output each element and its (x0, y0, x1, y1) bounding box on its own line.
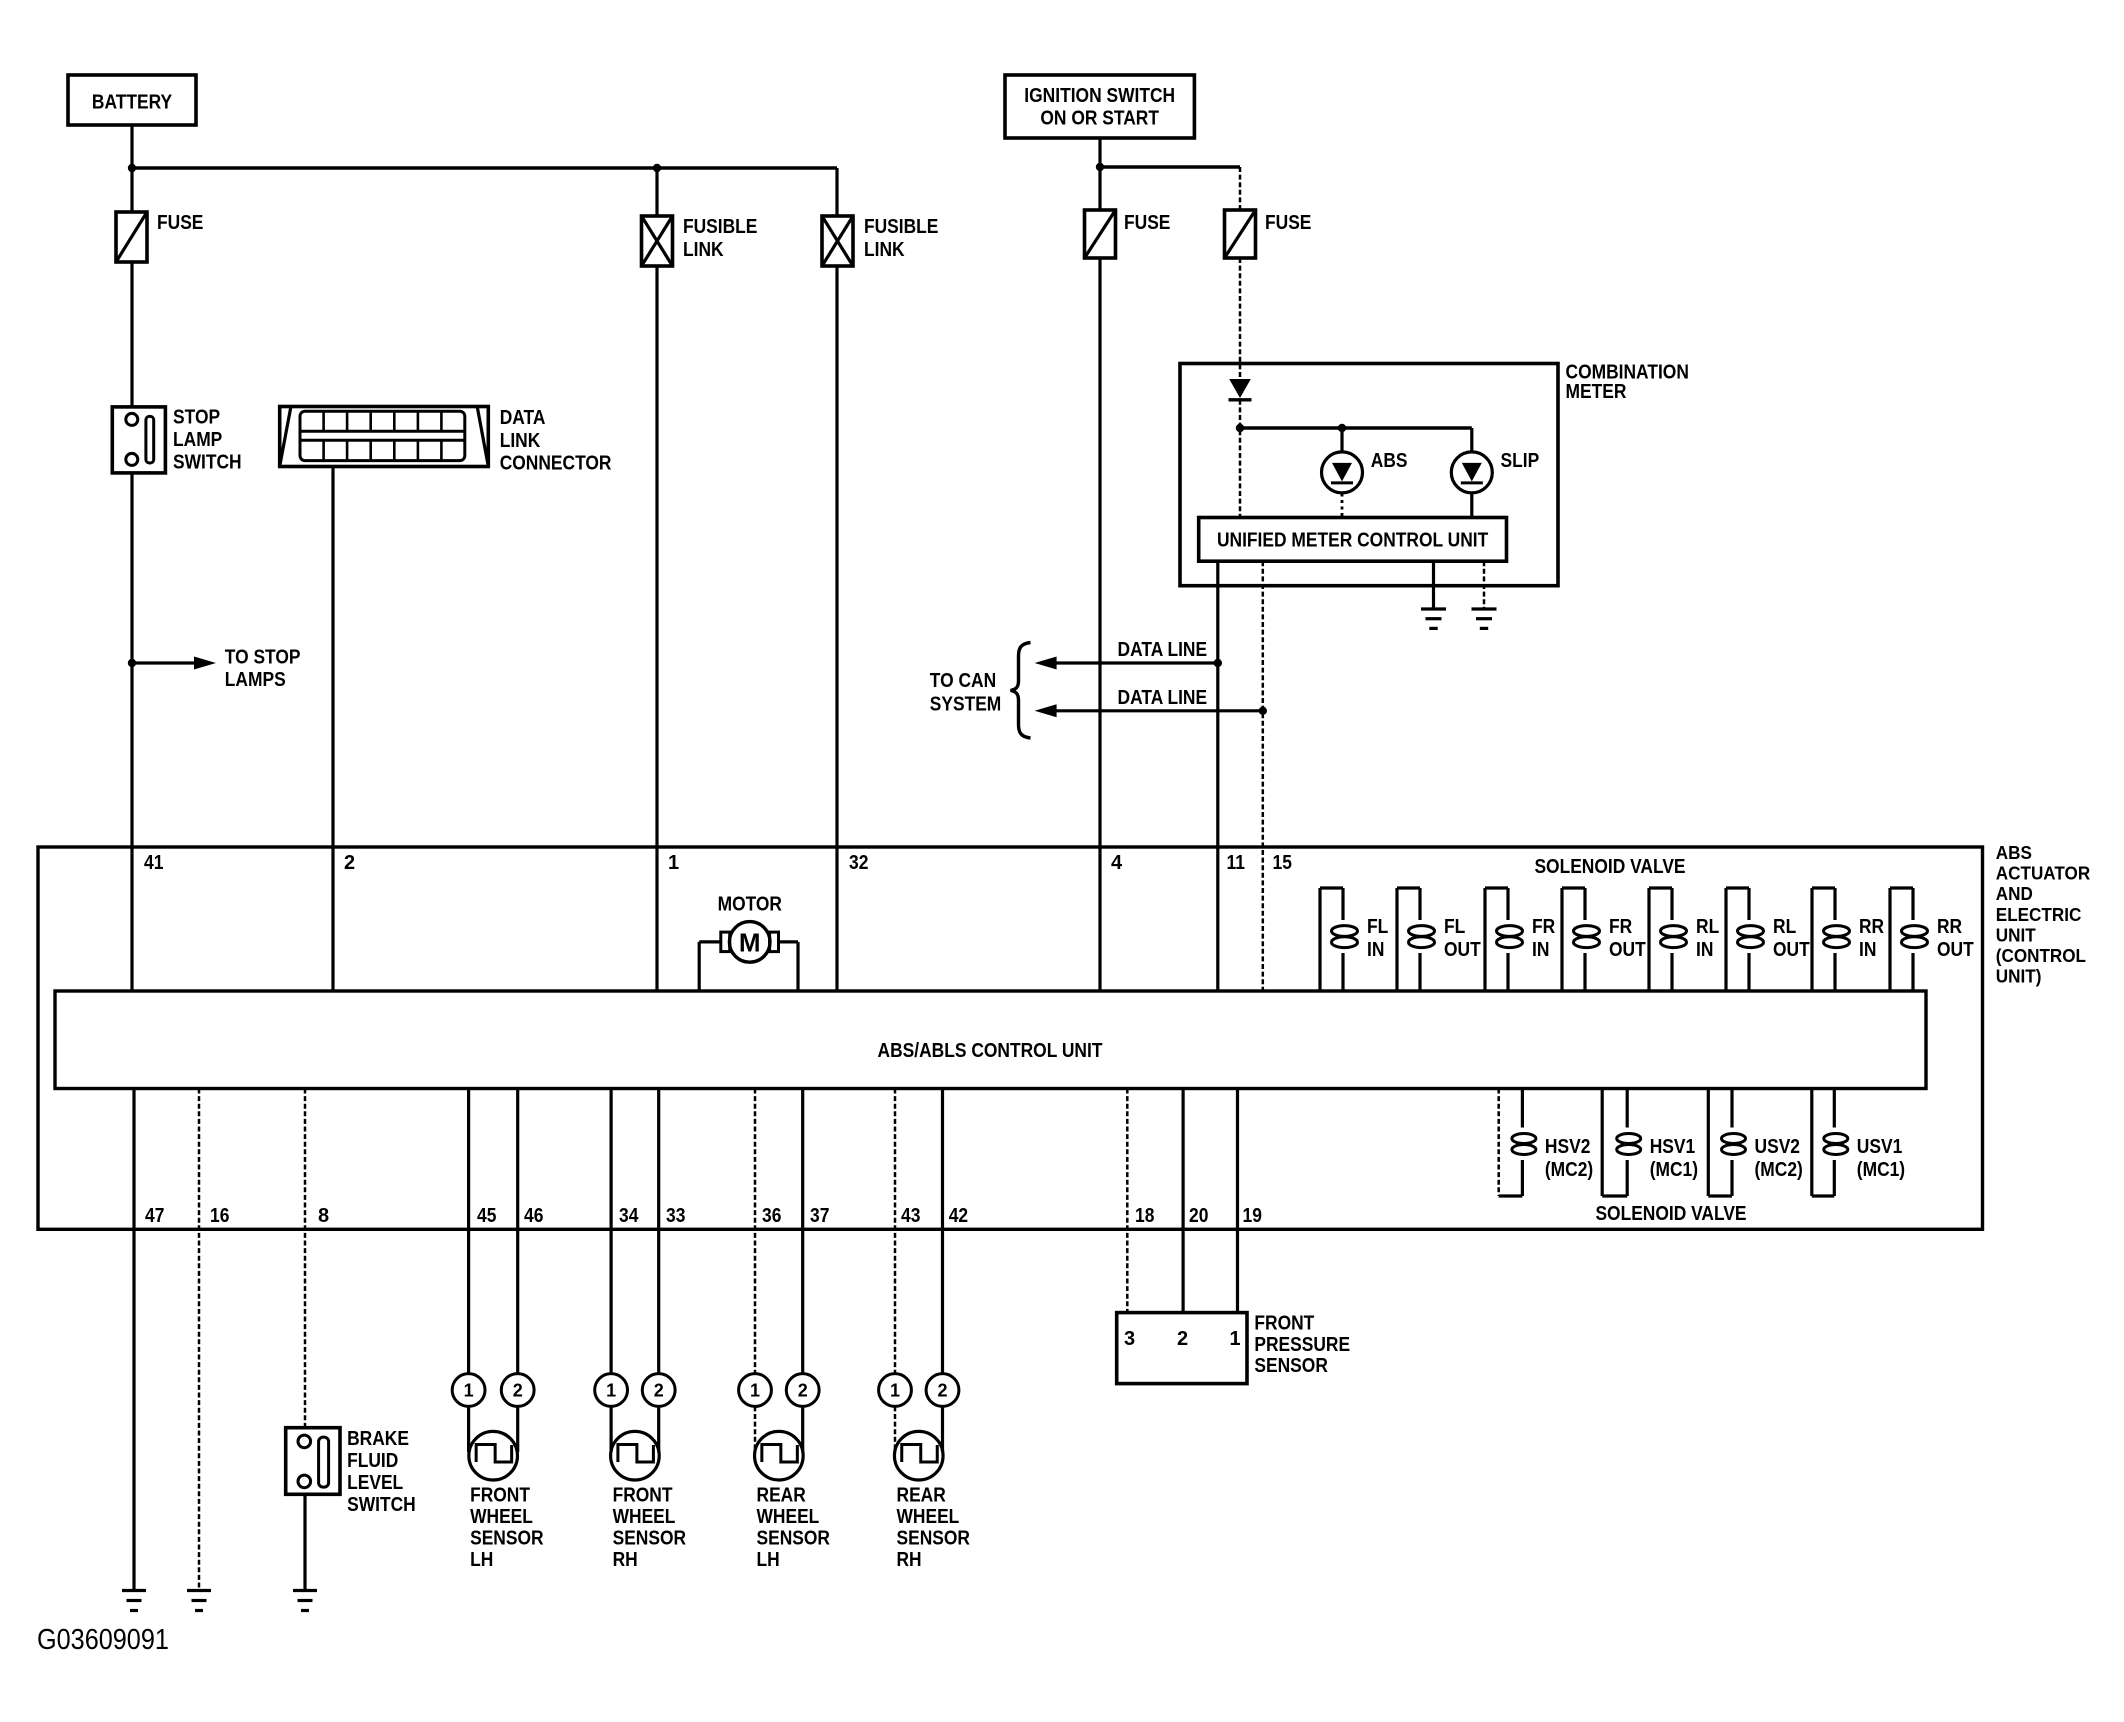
svg-text:OUT: OUT (1773, 939, 1810, 961)
svg-text:1: 1 (1229, 1328, 1240, 1350)
svg-text:RH: RH (613, 1549, 638, 1571)
svg-text:2: 2 (654, 1381, 664, 1401)
svg-text:USV1: USV1 (1857, 1136, 1903, 1158)
svg-text:SWITCH: SWITCH (173, 451, 242, 473)
svg-text:1: 1 (890, 1381, 900, 1401)
svg-text:SLIP: SLIP (1501, 450, 1540, 472)
svg-text:1: 1 (668, 852, 679, 874)
svg-text:FUSE: FUSE (1265, 212, 1311, 234)
svg-text:36: 36 (762, 1205, 781, 1227)
svg-text:SENSOR: SENSOR (897, 1528, 971, 1550)
svg-text:2: 2 (798, 1381, 808, 1401)
svg-text:METER: METER (1566, 381, 1627, 403)
svg-text:SENSOR: SENSOR (757, 1528, 831, 1550)
svg-text:SENSOR: SENSOR (470, 1528, 544, 1550)
svg-text:2: 2 (937, 1381, 947, 1401)
svg-text:LINK: LINK (500, 430, 541, 452)
svg-text:DATA: DATA (500, 407, 546, 429)
svg-text:STOP: STOP (173, 407, 220, 429)
svg-text:CONNECTOR: CONNECTOR (500, 453, 612, 475)
svg-text:FRONT: FRONT (470, 1485, 530, 1507)
svg-text:RL: RL (1696, 916, 1719, 938)
svg-text:LINK: LINK (683, 239, 724, 261)
svg-text:IN: IN (1696, 939, 1713, 961)
svg-text:4: 4 (1111, 852, 1123, 874)
svg-text:2: 2 (1177, 1328, 1188, 1350)
svg-text:47: 47 (145, 1205, 164, 1227)
svg-text:FL: FL (1444, 916, 1465, 938)
svg-text:33: 33 (666, 1205, 685, 1227)
svg-text:(MC1): (MC1) (1650, 1159, 1698, 1181)
svg-text:WHEEL: WHEEL (897, 1506, 960, 1528)
svg-text:TO CAN: TO CAN (930, 670, 996, 692)
svg-text:42: 42 (949, 1205, 968, 1227)
svg-text:SWITCH: SWITCH (347, 1494, 416, 1516)
svg-text:RL: RL (1773, 916, 1796, 938)
svg-text:ELECTRIC: ELECTRIC (1996, 905, 2082, 925)
svg-text:ACTUATOR: ACTUATOR (1996, 864, 2090, 884)
svg-text:FR: FR (1532, 916, 1556, 938)
svg-text:WHEEL: WHEEL (613, 1506, 676, 1528)
svg-text:LH: LH (470, 1549, 493, 1571)
svg-text:(MC2): (MC2) (1755, 1159, 1803, 1181)
svg-text:32: 32 (849, 852, 868, 874)
svg-text:FLUID: FLUID (347, 1450, 398, 1472)
svg-text:ABS: ABS (1996, 843, 2032, 863)
svg-text:OUT: OUT (1444, 939, 1481, 961)
svg-text:IN: IN (1367, 939, 1384, 961)
svg-text:BRAKE: BRAKE (347, 1428, 409, 1450)
svg-text:HSV2: HSV2 (1545, 1136, 1591, 1158)
svg-text:TO STOP: TO STOP (225, 647, 301, 669)
svg-text:FRONT: FRONT (1254, 1313, 1314, 1335)
svg-text:ON OR START: ON OR START (1040, 108, 1159, 130)
svg-text:1: 1 (750, 1381, 760, 1401)
svg-text:IN: IN (1859, 939, 1876, 961)
svg-text:COMBINATION: COMBINATION (1566, 361, 1689, 383)
svg-text:LH: LH (757, 1549, 780, 1571)
svg-text:1: 1 (464, 1381, 474, 1401)
svg-text:HSV1: HSV1 (1650, 1136, 1696, 1158)
svg-text:UNIT: UNIT (1996, 925, 2036, 945)
svg-text:RR: RR (1859, 916, 1885, 938)
svg-text:2: 2 (344, 852, 355, 874)
svg-text:DATA LINE: DATA LINE (1118, 639, 1208, 661)
svg-text:34: 34 (619, 1205, 639, 1227)
svg-text:USV2: USV2 (1755, 1136, 1801, 1158)
svg-text:LAMPS: LAMPS (225, 669, 286, 691)
svg-text:(MC2): (MC2) (1545, 1159, 1593, 1181)
svg-text:43: 43 (901, 1205, 920, 1227)
svg-text:FL: FL (1367, 916, 1388, 938)
svg-text:16: 16 (210, 1205, 229, 1227)
svg-text:FUSE: FUSE (157, 212, 203, 234)
svg-text:PRESSURE: PRESSURE (1254, 1334, 1350, 1356)
svg-text:3: 3 (1124, 1328, 1135, 1350)
svg-text:OUT: OUT (1937, 939, 1974, 961)
svg-text:RR: RR (1937, 916, 1963, 938)
svg-text:UNIFIED METER CONTROL UNIT: UNIFIED METER CONTROL UNIT (1217, 530, 1488, 552)
svg-text:SYSTEM: SYSTEM (930, 694, 1002, 716)
svg-text:M: M (739, 928, 761, 958)
svg-text:UNIT): UNIT) (1996, 967, 2042, 987)
svg-text:45: 45 (477, 1205, 496, 1227)
svg-text:18: 18 (1135, 1205, 1154, 1227)
svg-text:ABS/ABLS CONTROL UNIT: ABS/ABLS CONTROL UNIT (878, 1040, 1103, 1062)
svg-text:FR: FR (1609, 916, 1633, 938)
svg-text:DATA LINE: DATA LINE (1118, 687, 1208, 709)
svg-text:G03609091: G03609091 (37, 1624, 169, 1656)
svg-text:19: 19 (1243, 1205, 1262, 1227)
svg-text:ABS: ABS (1371, 450, 1408, 472)
svg-text:FUSIBLE: FUSIBLE (864, 216, 938, 238)
svg-text:OUT: OUT (1609, 939, 1646, 961)
svg-text:IN: IN (1532, 939, 1549, 961)
svg-text:SENSOR: SENSOR (613, 1528, 687, 1550)
svg-text:37: 37 (810, 1205, 829, 1227)
svg-text:SENSOR: SENSOR (1254, 1355, 1328, 1377)
svg-text:15: 15 (1273, 852, 1292, 874)
svg-text:(MC1): (MC1) (1857, 1159, 1905, 1181)
svg-text:MOTOR: MOTOR (718, 894, 783, 916)
svg-text:LAMP: LAMP (173, 429, 222, 451)
svg-text:11: 11 (1227, 852, 1245, 874)
svg-text:FRONT: FRONT (613, 1485, 673, 1507)
svg-text:2: 2 (513, 1381, 523, 1401)
svg-text:WHEEL: WHEEL (757, 1506, 820, 1528)
svg-text:SOLENOID VALVE: SOLENOID VALVE (1595, 1203, 1746, 1225)
svg-text:REAR: REAR (897, 1485, 947, 1507)
svg-text:46: 46 (524, 1205, 543, 1227)
svg-text:BATTERY: BATTERY (92, 92, 173, 114)
svg-text:AND: AND (1996, 884, 2033, 904)
svg-text:SOLENOID VALVE: SOLENOID VALVE (1534, 856, 1685, 878)
svg-text:(CONTROL: (CONTROL (1996, 946, 2086, 966)
svg-text:LEVEL: LEVEL (347, 1472, 403, 1494)
svg-text:WHEEL: WHEEL (470, 1506, 533, 1528)
svg-text:RH: RH (897, 1549, 922, 1571)
svg-text:IGNITION SWITCH: IGNITION SWITCH (1024, 85, 1175, 107)
svg-text:FUSE: FUSE (1124, 212, 1170, 234)
svg-text:FUSIBLE: FUSIBLE (683, 216, 757, 238)
svg-text:41: 41 (144, 852, 163, 874)
svg-text:LINK: LINK (864, 239, 905, 261)
svg-text:REAR: REAR (757, 1485, 807, 1507)
svg-text:20: 20 (1189, 1205, 1208, 1227)
svg-text:1: 1 (606, 1381, 616, 1401)
svg-text:8: 8 (318, 1205, 329, 1227)
